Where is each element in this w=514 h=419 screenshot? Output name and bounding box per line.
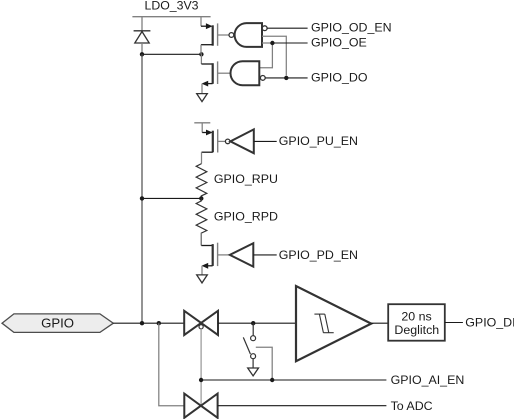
transistor Q4 NMOS pull-down [201, 233, 229, 275]
wire branch down to ADC gate [159, 323, 185, 406]
switch SW1 bottom contact [251, 354, 256, 359]
wire down to switch [252, 323, 254, 336]
svg-text:To ADC: To ADC [391, 399, 433, 413]
wire GPIO_PU_EN [254, 140, 277, 142]
passgate TG1 control bubble [199, 325, 203, 329]
wire TG1 to buffer [218, 322, 296, 324]
wire GPIO_DI [445, 322, 463, 324]
transistor Q3 PMOS pull-up [194, 123, 225, 153]
transistor Q2 NMOS driver [201, 54, 230, 93]
switch SW1 top contact [251, 336, 256, 341]
wire GPIO_OE [272, 42, 307, 44]
wire buffer to deglitch [371, 322, 388, 324]
svg-text:GPIO_RPU: GPIO_RPU [214, 172, 278, 186]
inverter U3 (PU enable, bubble output) [225, 129, 253, 153]
wire GPIO_OD_EN [267, 27, 308, 29]
wire diode anode down [141, 43, 143, 54]
wire GPIO_AI_EN [201, 379, 386, 381]
wire rail to diode [141, 17, 143, 31]
wire mid junction [142, 197, 201, 199]
wire U1 input2 to GPIO_DO net [262, 36, 286, 75]
wire Q3 drain to RPU [201, 152, 203, 163]
svg-text:20 ns: 20 ns [401, 309, 431, 323]
pin GPIO hexagon [2, 314, 113, 333]
gate U1 NAND (mirrored, drives PMOS) [229, 23, 267, 47]
wire GPIO_PD_EN [253, 254, 276, 256]
wire LDO_3V3 rail [132, 16, 210, 18]
ground below Q2 [197, 94, 208, 102]
node GPIO_DO junction [284, 76, 288, 80]
block 20 ns Deglitch [388, 304, 445, 341]
svg-text:GPIO_PD_EN: GPIO_PD_EN [279, 248, 358, 262]
wire GPIO_OE to U2 input [259, 43, 272, 68]
ground below switch [248, 368, 259, 376]
node GPIO_OE junction [270, 41, 274, 45]
wire junction to drains [142, 53, 201, 55]
node AI_EN control junction [199, 378, 203, 382]
svg-text:GPIO_OE: GPIO_OE [311, 35, 367, 49]
svg-text:GPIO_DI: GPIO_DI [465, 316, 514, 330]
svg-text:Deglitch: Deglitch [394, 323, 439, 337]
wire U1 input3 stub [262, 42, 272, 44]
wire GPIO main line left [113, 322, 184, 324]
transistor Q1 PMOS driver [201, 17, 229, 55]
svg-text:LDO_3V3: LDO_3V3 [144, 0, 198, 13]
svg-text:GPIO: GPIO [41, 316, 74, 331]
resistor GPIO_RPD [196, 198, 207, 245]
svg-text:GPIO_PU_EN: GPIO_PU_EN [279, 134, 358, 148]
node junction on main rail [140, 196, 144, 200]
svg-text:GPIO_OD_EN: GPIO_OD_EN [311, 21, 392, 35]
switch SW1 blade [243, 337, 250, 354]
wire main vertical rail [141, 54, 143, 323]
passgate TG2 (to ADC) [184, 394, 217, 418]
node AI_EN switch junction [270, 378, 274, 382]
svg-text:GPIO_DO: GPIO_DO [311, 70, 368, 84]
resistor GPIO_RPU [196, 164, 207, 199]
diode D1 (ESD clamp to LDO_3V3) [134, 31, 151, 43]
node buffer input junction [251, 321, 255, 325]
node drain junction [199, 52, 203, 56]
wire To ADC [218, 405, 387, 407]
hysteresis symbol [314, 314, 333, 333]
node ADC branch junction [157, 321, 161, 325]
buffer U5 Schmitt trigger [296, 286, 371, 361]
wire switch control to GPIO_AI_EN [256, 347, 272, 380]
node main rail junction [140, 321, 144, 325]
node diode/output junction [140, 52, 144, 56]
svg-text:GPIO_AI_EN: GPIO_AI_EN [391, 373, 465, 387]
wire TG1 control down [200, 329, 202, 406]
passgate TG1 (digital input) [184, 311, 218, 335]
node junction between resistors [199, 196, 203, 200]
ground below Q4 [197, 275, 208, 283]
buffer U4 (PD enable, no bubble) [230, 243, 254, 266]
gate U2 AND with inverted input (drives NMOS) [231, 61, 266, 85]
svg-text:GPIO_RPD: GPIO_RPD [214, 210, 278, 224]
wire GPIO_DO [265, 77, 307, 79]
wire switch to ground [252, 359, 254, 368]
